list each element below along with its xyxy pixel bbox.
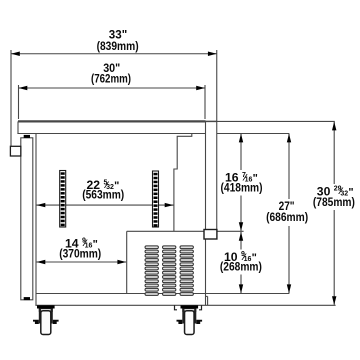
svg-text:14 9⁄16": 14 9⁄16" [65,236,98,250]
svg-text:(762mm): (762mm) [91,72,131,86]
svg-text:10 9⁄16": 10 9⁄16" [224,250,257,264]
svg-text:22 5⁄32": 22 5⁄32" [87,178,120,192]
svg-text:(686mm): (686mm) [266,210,308,224]
svg-text:16 7⁄16": 16 7⁄16" [225,171,258,185]
svg-text:(839mm): (839mm) [97,39,139,53]
